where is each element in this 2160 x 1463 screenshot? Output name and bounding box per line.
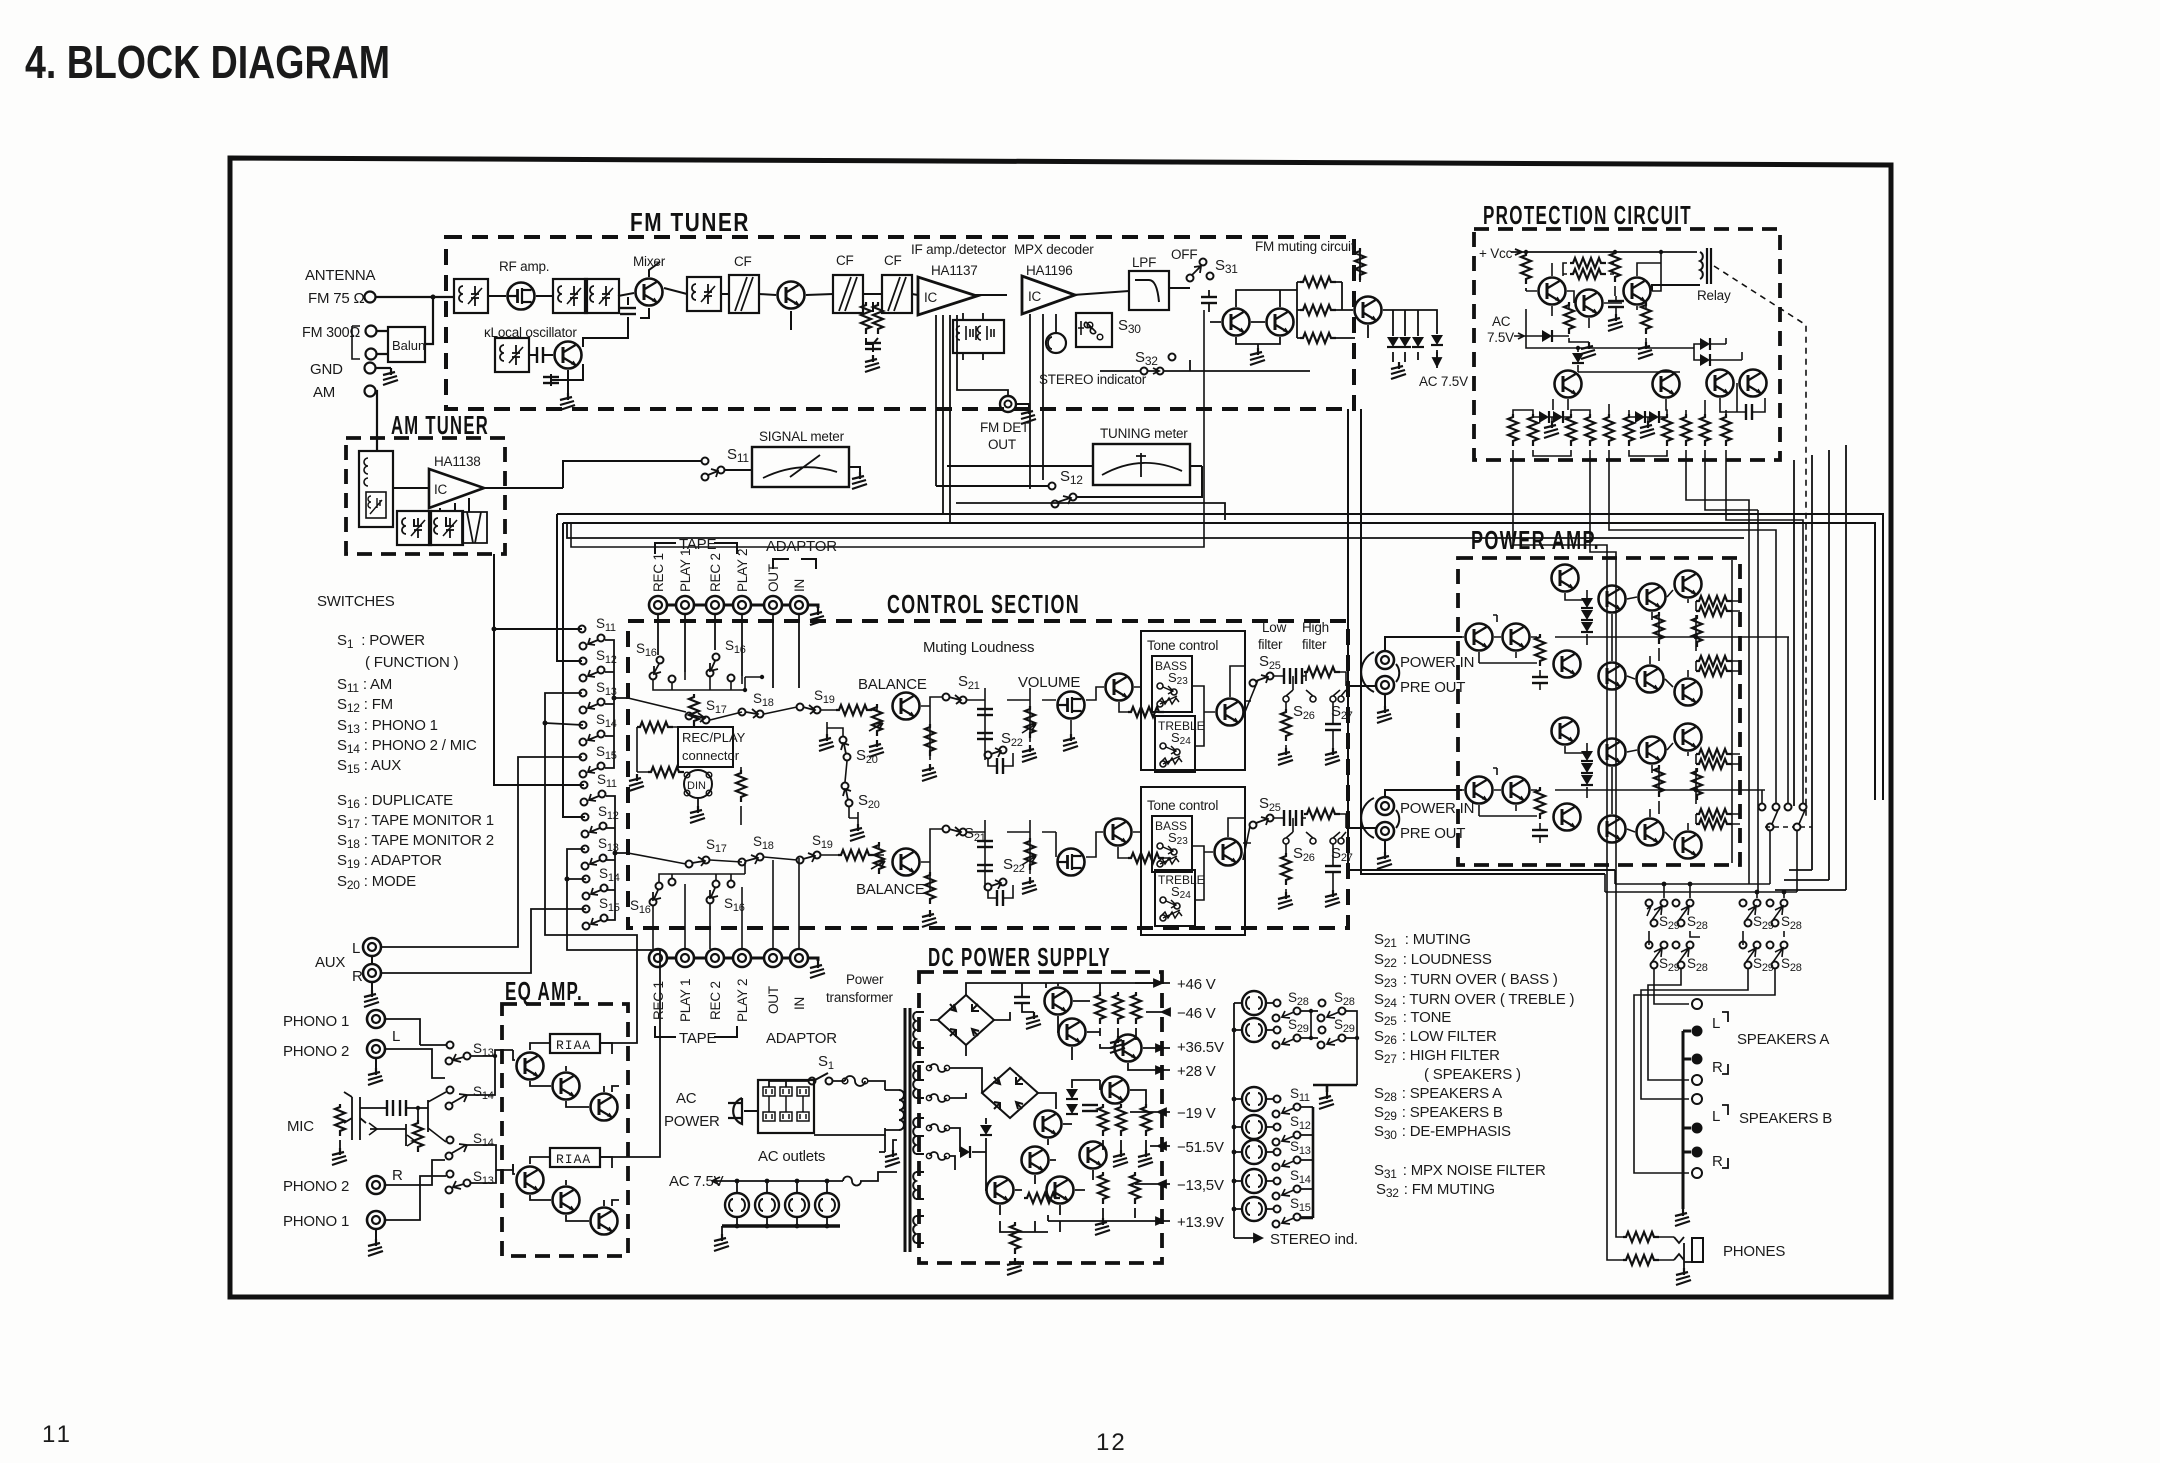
speaker switch bank A row2 <box>1646 942 1694 969</box>
AM IF coil box 1 <box>397 511 431 545</box>
svg-text:CONTROL SECTION: CONTROL SECTION <box>887 589 1080 619</box>
RIAA box upper <box>550 1034 600 1053</box>
discriminator coil box <box>953 320 1004 353</box>
svg-text:HA1138: HA1138 <box>434 454 481 469</box>
svg-text:Low: Low <box>1262 620 1287 635</box>
terminal AM <box>365 386 376 397</box>
svg-text:AM: AM <box>313 384 335 401</box>
wires muting <box>1210 252 1360 348</box>
tone output transistor lower <box>1215 839 1242 866</box>
ground <box>922 910 937 927</box>
svg-text:PHONO 1: PHONO 1 <box>283 1013 349 1030</box>
svg-text:POWER AMP.: POWER AMP. <box>1471 525 1600 555</box>
svg-text:PLAY 2: PLAY 2 <box>735 979 750 1022</box>
local osc transistor <box>555 342 582 369</box>
grounds dc <box>1095 1218 1110 1235</box>
mixer transistor <box>636 279 663 306</box>
svg-text:PHONO 1: PHONO 1 <box>283 1213 349 1230</box>
ground transformer <box>893 1140 897 1150</box>
speaker switch bank B row2 <box>1740 942 1788 969</box>
eq transistor 1 <box>517 1053 544 1080</box>
wire s1 <box>769 1081 845 1087</box>
svg-text:OUT: OUT <box>988 437 1016 452</box>
wire S14 lower feed <box>567 878 586 880</box>
ground S26 upper <box>1278 748 1293 765</box>
wire chain lower channel <box>628 853 884 864</box>
diode stack 2 <box>1581 751 1593 761</box>
S22 switch upper <box>985 752 992 759</box>
svg-text:CF: CF <box>836 253 854 268</box>
transformer secondary 2 <box>913 1062 924 1098</box>
wire OUT down <box>772 614 774 688</box>
adaptor jack IN bottom <box>790 949 808 967</box>
power transformer core <box>905 1008 910 1252</box>
wire to S12 lower <box>563 523 585 817</box>
loudness caps lower <box>977 841 993 847</box>
function lamp S11 <box>1242 1087 1266 1111</box>
relay contact group <box>1759 804 1766 811</box>
S26 resistor upper <box>1281 709 1291 741</box>
terminal A R+ <box>1692 1075 1702 1085</box>
pre-driver 2b <box>1639 737 1666 764</box>
ground volume <box>1022 745 1037 762</box>
svg-text:−19 V: −19 V <box>1177 1105 1216 1122</box>
svg-text:PLAY 2: PLAY 2 <box>735 549 750 592</box>
fuse lamps <box>843 1177 861 1186</box>
svg-text:PRE OUT: PRE OUT <box>1400 679 1465 696</box>
resistor <box>1128 707 1164 717</box>
wire PLAY1 down <box>684 614 686 672</box>
diode d3 <box>1412 337 1424 347</box>
wire REC1 down <box>657 614 659 655</box>
resistor below box <box>736 770 746 802</box>
cap pair <box>1746 404 1752 420</box>
phono1 L connector <box>367 1010 385 1028</box>
svg-text:SPEAKERS A: SPEAKERS A <box>1737 1031 1829 1048</box>
svg-text:POWER IN: POWER IN <box>1400 654 1474 671</box>
wire lamp1 <box>1266 1003 1357 1085</box>
ground S26 lower <box>1278 892 1293 909</box>
input transistor b2 <box>1503 777 1530 804</box>
adaptor jack OUT bottom <box>764 949 782 967</box>
AM filter <box>462 512 487 543</box>
tone output transistor upper <box>1217 699 1244 726</box>
svg-text:filter: filter <box>1302 637 1327 652</box>
resistor top <box>1355 248 1365 280</box>
top transistor <box>1552 565 1579 592</box>
PRE OUT connector lower <box>1376 822 1394 840</box>
selector switch S11 (lower) <box>581 782 588 789</box>
wire S15 lower feed from AUX R <box>381 909 586 973</box>
svg-text:HA1137: HA1137 <box>931 263 978 278</box>
phono1 R connector <box>367 1211 385 1229</box>
pilot lamp 4 <box>815 1193 839 1217</box>
volume pot upper <box>1025 706 1035 738</box>
svg-text:−51.5V: −51.5V <box>1177 1139 1224 1156</box>
high filter resistor lower <box>1304 809 1340 819</box>
wire PLAY2 down <box>741 614 743 676</box>
svg-text:FM DET: FM DET <box>980 420 1029 435</box>
svg-text:MIC: MIC <box>287 1118 314 1135</box>
wires to diodes <box>1368 310 1437 368</box>
eq transistor 5 <box>553 1187 580 1214</box>
mic network <box>360 1100 428 1146</box>
svg-text:RF amp.: RF amp. <box>499 259 549 274</box>
ground local osc <box>560 393 575 410</box>
pre-driver 1b <box>1599 739 1626 766</box>
transistor prot 6 <box>1707 370 1734 397</box>
tape jack REC2 <box>706 596 724 614</box>
svg-text:POWER IN: POWER IN <box>1400 800 1474 817</box>
resistor below tr1 <box>1564 302 1574 334</box>
post-volume transistor lower <box>1105 819 1132 846</box>
terminal FM300 b <box>366 349 377 360</box>
bus to ground <box>1313 1085 1357 1092</box>
tuned circuit T2b <box>585 279 619 313</box>
wires tone out upper <box>1192 666 1258 746</box>
wire row link <box>1649 931 1784 945</box>
svg-text:IC: IC <box>924 290 938 305</box>
label TAPE bracket <box>655 543 737 554</box>
bridge rectifier 2 <box>982 1068 1038 1118</box>
muting cap <box>1201 297 1217 303</box>
svg-text:OUT: OUT <box>766 986 781 1014</box>
resistor muting 2 <box>1300 305 1336 315</box>
svg-text:TAPE: TAPE <box>679 1030 716 1047</box>
wire FM L bus <box>557 514 1883 800</box>
AC plug <box>728 1098 742 1124</box>
svg-text:STEREO indicator: STEREO indicator <box>1039 372 1147 387</box>
-46V <box>1146 1009 1170 1016</box>
tuned circuit T2a <box>553 279 587 313</box>
loudness cap h lower <box>997 890 1003 906</box>
wire vcc rail <box>1522 251 1697 253</box>
svg-text:L: L <box>392 1028 400 1045</box>
wire gnd <box>376 367 391 369</box>
wire diff pair <box>1462 615 1537 663</box>
REC/PLAY connector box <box>678 727 733 767</box>
resistor after S19 lower <box>838 850 874 860</box>
phono2 L connector <box>367 1040 385 1058</box>
switch S32 <box>1141 368 1148 375</box>
svg-text:Mixer: Mixer <box>633 254 666 269</box>
tuning meter box <box>1093 444 1190 485</box>
S27 cap upper <box>1325 724 1341 730</box>
ground <box>922 764 937 781</box>
transistor prot 5 <box>1653 371 1680 398</box>
svg-text:AM TUNER: AM TUNER <box>391 410 489 440</box>
selector switch S11 (upper) <box>579 626 586 633</box>
wire FM muting down 2 <box>1361 409 1605 874</box>
arrow ac7.5 <box>712 1177 727 1185</box>
resistor after S19 <box>836 705 872 715</box>
volume pot lower <box>1025 838 1035 870</box>
svg-text:PROTECTION CIRCUIT: PROTECTION CIRCUIT <box>1483 200 1692 230</box>
diode d4 <box>1431 335 1443 345</box>
svg-text:R: R <box>1712 1059 1723 1076</box>
svg-text:IF amp./detector: IF amp./detector <box>911 242 1007 257</box>
selector switch S14 (upper) <box>580 722 587 729</box>
+28V <box>1156 1067 1170 1074</box>
svg-text:EQ AMP.: EQ AMP. <box>505 976 583 1006</box>
wire local osc <box>529 297 628 393</box>
loudness caps upper <box>977 709 993 715</box>
output resistors 2 <box>1696 749 1732 759</box>
AUX R connector <box>363 964 381 982</box>
svg-text:OUT: OUT <box>766 564 781 592</box>
svg-text:REC 2: REC 2 <box>708 553 723 592</box>
stereo lamp <box>1046 333 1066 353</box>
svg-text:Tone control: Tone control <box>1147 638 1218 653</box>
svg-text:IC: IC <box>434 482 448 497</box>
svg-text:AC outlets: AC outlets <box>758 1148 825 1165</box>
FM tuner dashed box <box>446 237 1354 409</box>
svg-text:TREBLE: TREBLE <box>1158 873 1205 887</box>
svg-text:+13.9V: +13.9V <box>1177 1214 1224 1231</box>
caps dc <box>1082 1105 1098 1111</box>
AM antenna coil box <box>359 451 393 527</box>
+13.9V <box>1048 1218 1170 1225</box>
svg-text:IN: IN <box>792 997 807 1010</box>
terminal A L+ <box>1692 999 1702 1009</box>
resistor phones L <box>1623 1232 1659 1242</box>
selector switch S13 (lower) <box>582 846 589 853</box>
svg-text:R: R <box>352 968 363 985</box>
dashed link relay to contacts <box>1714 266 1806 818</box>
ground balance upper <box>869 740 884 757</box>
svg-text:Power: Power <box>846 972 884 987</box>
terminal GND <box>365 363 376 374</box>
ground mic <box>332 1148 347 1165</box>
svg-text:RIAA: RIAA <box>556 1038 591 1053</box>
ceramic filter CF3 <box>882 275 912 313</box>
resistor vcc <box>1521 252 1531 284</box>
svg-text:RIAA: RIAA <box>556 1152 591 1167</box>
transformer secondary 3 <box>913 1118 924 1154</box>
wires eq lower <box>513 1157 619 1221</box>
ground S27 upper <box>1325 748 1340 765</box>
svg-text:SWITCHES: SWITCHES <box>317 593 395 610</box>
junction contacts row <box>669 676 676 683</box>
volume FET upper <box>1058 692 1085 719</box>
svg-text:REC 1: REC 1 <box>651 981 666 1020</box>
balance pot upper <box>872 704 882 736</box>
S25 switch lower <box>1250 822 1257 829</box>
wire <box>637 727 684 772</box>
high filter resistor upper <box>1304 667 1340 677</box>
wire right bundle a <box>1793 460 1795 806</box>
post-volume transistor upper <box>1106 674 1133 701</box>
wire S16 cross <box>653 672 762 690</box>
svg-text:L: L <box>1712 1015 1720 1032</box>
ground tr2 <box>1581 342 1596 359</box>
-19V <box>1130 1109 1170 1116</box>
svg-text:IC: IC <box>1028 289 1042 304</box>
switch S1 <box>809 1078 816 1085</box>
svg-text:REC 2: REC 2 <box>708 981 723 1020</box>
TREBLE box lower <box>1155 870 1195 926</box>
resistor bottom <box>1024 1193 1060 1203</box>
+46V <box>1135 980 1170 987</box>
EQ dashed box <box>502 1004 628 1256</box>
resistor between filters <box>861 302 871 334</box>
tuned circuit T3 <box>687 277 721 311</box>
filter wires upper <box>1274 672 1346 696</box>
wires to tone lower <box>1056 832 1171 858</box>
svg-text:AC: AC <box>676 1090 697 1107</box>
svg-text:SPEAKERS B: SPEAKERS B <box>1739 1110 1832 1127</box>
tape jack PLAY2 <box>733 596 751 614</box>
transistor 28V <box>1115 1035 1142 1062</box>
ceramic filter CF2 <box>833 275 863 313</box>
resistor muting 3 <box>1300 333 1336 343</box>
S29 switch b <box>1319 1027 1326 1034</box>
wire IN down <box>798 614 800 688</box>
wire jack bus <box>667 605 818 608</box>
wire selector bus upper <box>605 640 628 768</box>
lower row transistors 2 <box>1599 816 1626 843</box>
svg-text:FM 75 Ω: FM 75 Ω <box>308 290 365 307</box>
ground fet <box>1063 734 1078 751</box>
cap prot <box>1608 301 1624 307</box>
wire S15 feed from AUX L <box>381 757 582 947</box>
coils fuses left <box>930 1064 946 1160</box>
svg-text:REC/PLAY: REC/PLAY <box>682 730 746 745</box>
svg-text:ANTENNA: ANTENNA <box>305 267 375 284</box>
output arrows and labels <box>1048 976 1224 1231</box>
tape jack PLAY1 <box>676 596 694 614</box>
svg-text:VOLUME: VOLUME <box>1018 674 1080 691</box>
ground lamps <box>714 1234 729 1251</box>
S27 cap lower <box>1325 866 1341 872</box>
wire right bundle c <box>1784 450 1829 880</box>
ground fm det <box>1021 407 1036 424</box>
svg-text:−13,5V: −13,5V <box>1177 1177 1224 1194</box>
wire chain upper channel <box>628 698 877 720</box>
terminal FM 75 <box>365 292 376 303</box>
svg-text:AC 7.5V: AC 7.5V <box>1419 374 1468 389</box>
tape jack REC1 <box>649 596 667 614</box>
ground din <box>690 806 705 823</box>
transformer secondary 5 <box>913 1216 924 1243</box>
filter wires lower <box>1274 814 1346 838</box>
function lamp S15 <box>1242 1197 1266 1221</box>
regulator transistor 2 <box>1059 1019 1086 1046</box>
wire REC2 down <box>714 614 716 650</box>
arrow <box>1514 333 1524 339</box>
svg-text:Tone control: Tone control <box>1147 798 1218 813</box>
wire S16 lower cross <box>653 862 745 949</box>
right bus <box>1301 1107 1313 1218</box>
wire fm chain <box>454 262 1190 330</box>
function lamp S12 <box>1242 1115 1266 1139</box>
svg-text:OFF: OFF <box>1171 247 1197 262</box>
cap below <box>1532 677 1548 683</box>
svg-text:S15: AUX: S15: AUX <box>337 757 401 776</box>
ground tape top <box>810 608 825 625</box>
diode pairs bottom mid <box>1635 411 1645 423</box>
muting transistor B <box>1267 309 1294 336</box>
svg-text:12: 12 <box>1096 1429 1127 1456</box>
mic resistor <box>335 1104 345 1136</box>
transistor prot 4 <box>1555 371 1582 398</box>
wire FM R bus <box>563 523 1875 800</box>
svg-text:transformer: transformer <box>826 990 894 1005</box>
ground <box>1250 348 1265 365</box>
svg-text:SIGNAL meter: SIGNAL meter <box>759 429 845 444</box>
ground tr3 <box>1638 342 1653 359</box>
svg-text:11: 11 <box>42 1421 73 1448</box>
speaker switch bank B row1 <box>1740 900 1788 927</box>
wire aux gnd <box>371 956 373 990</box>
eq transistor 2 <box>553 1073 580 1100</box>
switch S11 meter <box>702 458 709 465</box>
low filter caps upper <box>1284 668 1290 684</box>
transistors lower bank <box>1035 1111 1062 1138</box>
transistor prot 1 <box>1539 278 1566 305</box>
tape jack REC2 bottom <box>706 949 724 967</box>
wires under HA1196 <box>1030 314 1056 489</box>
wires to tone upper <box>1071 687 1171 734</box>
IC HA1138 triangle <box>429 469 484 508</box>
svg-text:S24: TURN OVER ( TREBLE ): S24: TURN OVER ( TREBLE ) <box>1374 991 1575 1010</box>
relay coil <box>1652 252 1703 291</box>
resistor v mid <box>1610 250 1620 282</box>
transistor prot 2 <box>1576 290 1603 317</box>
adaptor jack IN <box>790 596 808 614</box>
selector switch S15 (upper) <box>580 754 587 761</box>
driver transistor 2 <box>1554 804 1581 831</box>
resistor net 1 <box>1095 992 1105 1024</box>
svg-text:BALANCE: BALANCE <box>856 881 925 898</box>
ground aux <box>364 990 379 1007</box>
svg-text:DIN: DIN <box>687 780 706 792</box>
tone control outer box upper <box>1141 631 1245 770</box>
terminal FM300 a <box>366 326 377 337</box>
IF transistor <box>778 282 805 309</box>
terminal B R- <box>1692 1147 1703 1158</box>
wire reg <box>1057 983 1100 1060</box>
fuse S1 <box>845 1076 865 1086</box>
diode d2 <box>1399 337 1411 347</box>
svg-text:PHONO 2: PHONO 2 <box>283 1043 349 1060</box>
svg-text:L: L <box>1712 1108 1720 1125</box>
mic jack <box>344 1092 366 1140</box>
diodes mid <box>980 1125 992 1135</box>
balance transistor upper <box>893 693 920 720</box>
output resistors <box>1696 596 1732 606</box>
svg-text:BALANCE: BALANCE <box>858 676 927 693</box>
svg-text:High: High <box>1302 620 1329 635</box>
wires 36/28 <box>1100 983 1162 1070</box>
svg-text:Relay: Relay <box>1697 288 1731 303</box>
POWER IN connector lower <box>1376 797 1394 815</box>
balance transistor lower <box>893 849 920 876</box>
selector switch S14 (lower) <box>583 876 590 883</box>
svg-text:+ Vcc: + Vcc <box>1479 246 1513 261</box>
tape jack PLAY1 bottom <box>676 949 694 967</box>
svg-text:MPX decoder: MPX decoder <box>1014 242 1094 257</box>
terminal B L+ <box>1692 1094 1702 1104</box>
tone control outer box lower <box>1141 787 1245 935</box>
diode stack <box>1581 598 1593 608</box>
top transistor 2 <box>1552 718 1579 745</box>
input transistor b <box>1503 624 1530 651</box>
svg-text:CF: CF <box>884 253 902 268</box>
diode d1 <box>1387 337 1399 347</box>
tuned circuit T1 <box>454 279 488 313</box>
arrow AC 7.5V <box>1433 352 1441 366</box>
